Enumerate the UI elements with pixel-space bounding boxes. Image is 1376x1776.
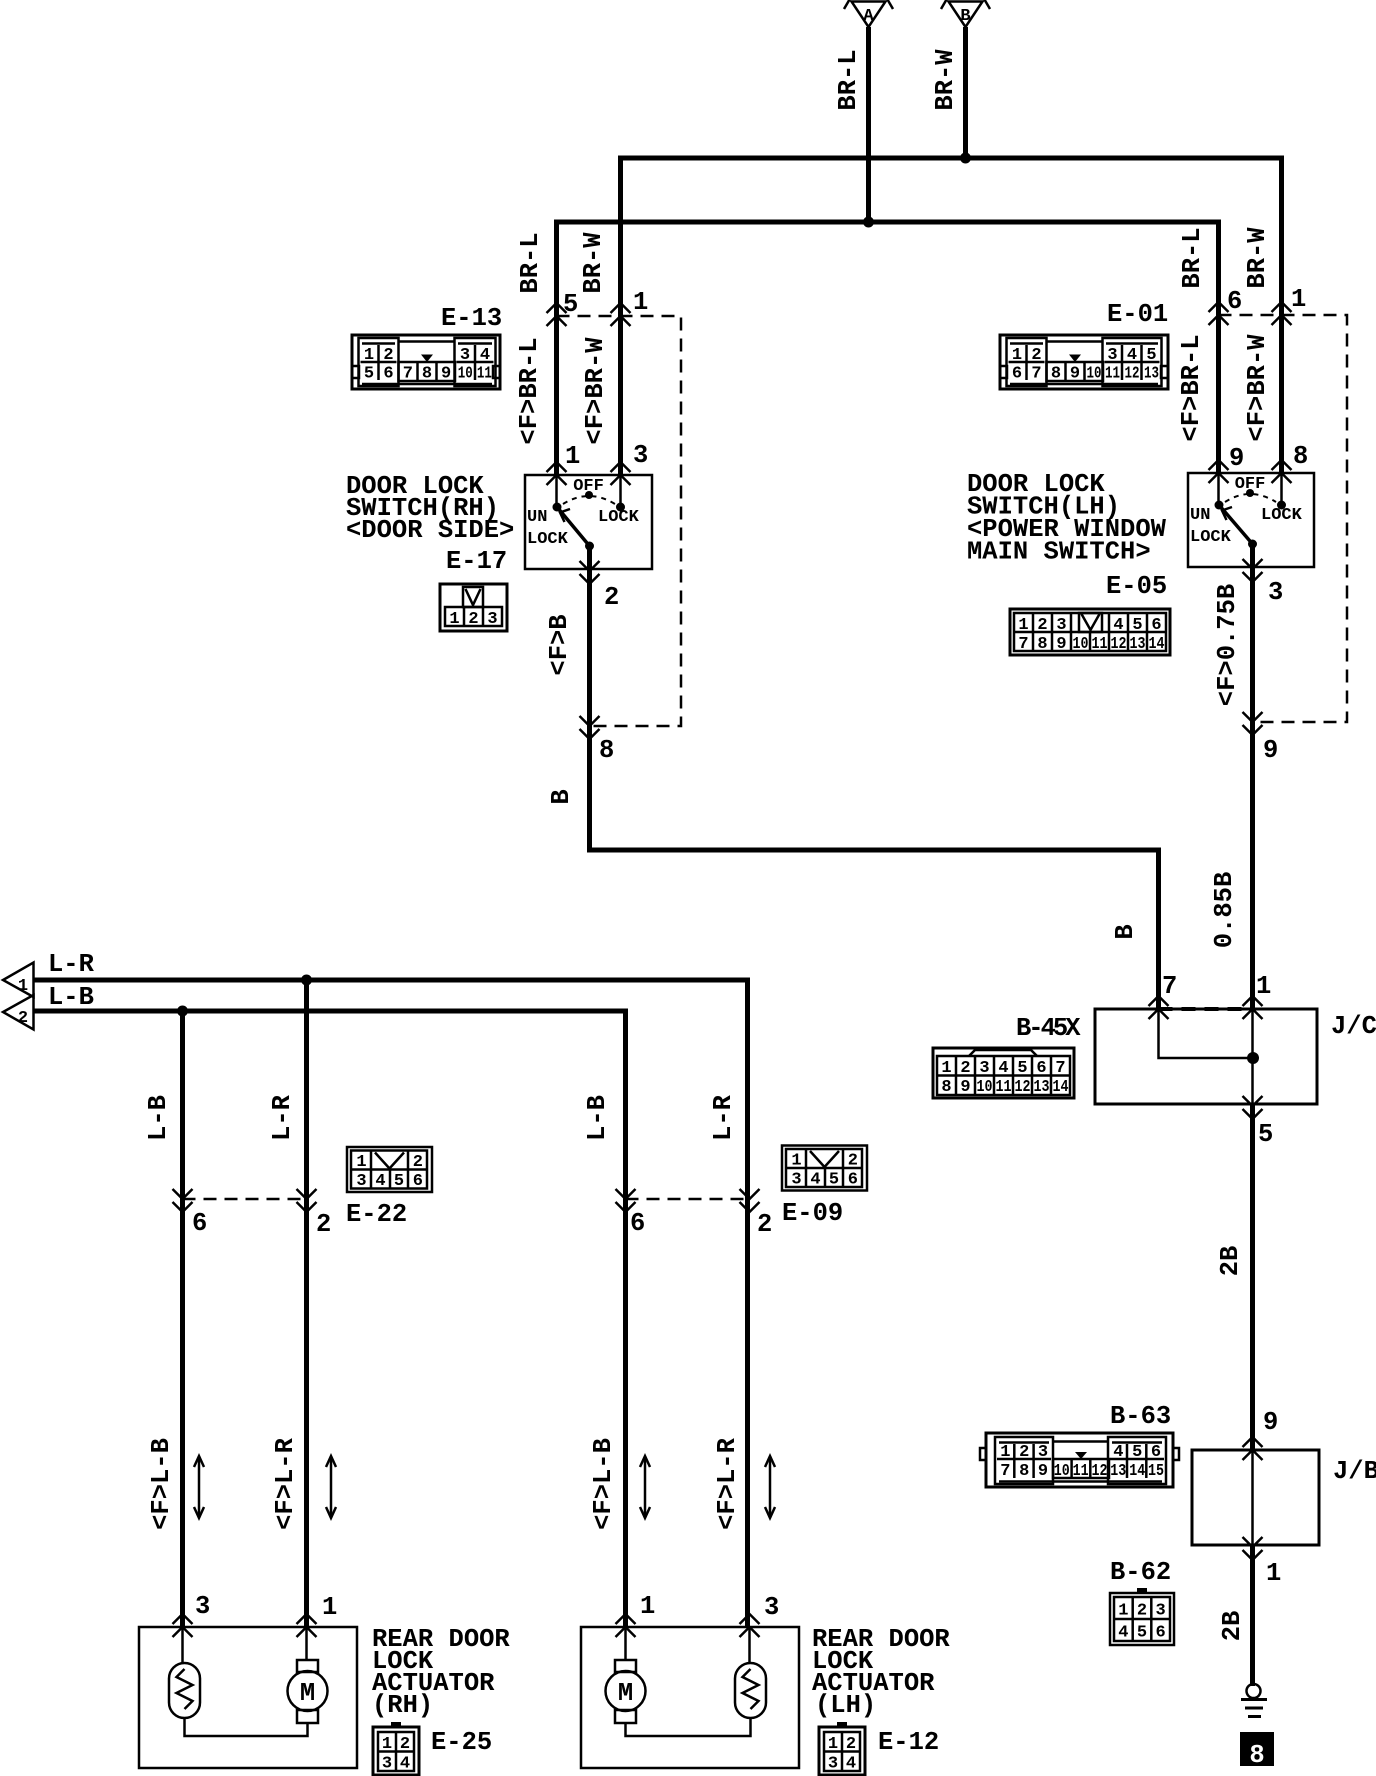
svg-text:BR-W: BR-W xyxy=(579,232,608,294)
svg-text:2: 2 xyxy=(468,610,478,629)
svg-text:1: 1 xyxy=(322,1593,337,1622)
wire J/B to ground xyxy=(1250,1545,1255,1686)
J/C junction dot xyxy=(1247,1052,1259,1064)
arrows into J/C, pins 7 and 1 xyxy=(1149,996,1169,1019)
svg-text:3: 3 xyxy=(356,1172,366,1191)
svg-text:1: 1 xyxy=(1000,1443,1010,1462)
svg-text:4: 4 xyxy=(375,1172,385,1191)
svg-text:B: B xyxy=(960,7,970,26)
svg-text:7: 7 xyxy=(1162,972,1177,1001)
svg-text:M: M xyxy=(618,1679,633,1708)
svg-text:2: 2 xyxy=(316,1210,331,1239)
svg-text:UN: UN xyxy=(527,508,547,527)
J/B exit arrow pin 1 xyxy=(1243,1537,1263,1560)
svg-text:7: 7 xyxy=(1031,365,1041,384)
svg-text:<F>L-B: <F>L-B xyxy=(147,1438,176,1530)
svg-text:8: 8 xyxy=(422,365,432,384)
svg-text:2B: 2B xyxy=(1216,1246,1245,1277)
svg-text:8: 8 xyxy=(1051,365,1061,384)
svg-text:E-09: E-09 xyxy=(782,1199,843,1228)
wire L-B branch xyxy=(180,1011,185,1627)
svg-text:<F>L-R: <F>L-R xyxy=(713,1437,742,1530)
svg-text:9: 9 xyxy=(1263,736,1278,765)
svg-text:9: 9 xyxy=(441,365,451,384)
svg-text:B: B xyxy=(547,789,576,804)
svg-text:1: 1 xyxy=(1266,1559,1281,1588)
svg-text:REAR DOORLOCKACTUATOR(LH): REAR DOORLOCKACTUATOR(LH) xyxy=(812,1625,950,1720)
svg-text:10: 10 xyxy=(458,365,473,384)
svg-text:9: 9 xyxy=(1070,365,1080,384)
svg-text:9: 9 xyxy=(1056,635,1066,654)
J/C exit arrow pin 5 xyxy=(1243,1096,1263,1119)
svg-text:L-R: L-R xyxy=(48,950,95,979)
svg-text:2: 2 xyxy=(1031,346,1041,365)
svg-text:15: 15 xyxy=(1148,1462,1164,1481)
junction dot B/BR-W bus xyxy=(960,153,971,164)
wire L-R bus xyxy=(34,980,748,1627)
door lock switch (RH) box xyxy=(525,475,652,569)
svg-text:4: 4 xyxy=(1113,616,1123,635)
svg-text:<F>0.75B: <F>0.75B xyxy=(1213,584,1242,706)
svg-text:2: 2 xyxy=(18,1009,28,1028)
connector E-13 crossing arrows, pins 5 and 1 xyxy=(547,303,567,326)
svg-text:1: 1 xyxy=(1256,972,1271,1001)
wire BR-W from arrow B down xyxy=(963,27,968,158)
svg-text:13: 13 xyxy=(1110,1462,1126,1481)
svg-text:L-R: L-R xyxy=(709,1094,738,1141)
J/B entry arrow pin 9 xyxy=(1243,1437,1263,1460)
svg-text:13: 13 xyxy=(1034,1078,1050,1097)
svg-text:1: 1 xyxy=(1012,346,1022,365)
svg-text:8: 8 xyxy=(941,1078,951,1097)
svg-text:4: 4 xyxy=(998,1059,1008,1078)
svg-text:2: 2 xyxy=(413,1153,423,1172)
svg-text:<F>B: <F>B xyxy=(545,614,574,675)
svg-text:2: 2 xyxy=(757,1210,772,1239)
junction dot L-R xyxy=(301,975,312,986)
connector E-05 pin 9 arrow xyxy=(1243,712,1263,735)
svg-text:5: 5 xyxy=(563,290,578,319)
svg-text:DOOR LOCKSWITCH(LH)<POWER WIND: DOOR LOCKSWITCH(LH)<POWER WINDOWMAIN SWI… xyxy=(967,470,1167,567)
svg-text:12: 12 xyxy=(1125,365,1140,384)
connector E-05 (14 pin) xyxy=(1010,609,1170,655)
svg-text:LOCK: LOCK xyxy=(1261,506,1303,525)
svg-text:J/C: J/C xyxy=(1331,1012,1376,1041)
wire BR-L bus: horizontal then down both sides xyxy=(557,222,1219,475)
arrows into door lock switch LH xyxy=(1209,460,1229,483)
svg-text:LOCK: LOCK xyxy=(527,530,569,549)
svg-text:2: 2 xyxy=(1137,1602,1147,1621)
svg-text:11: 11 xyxy=(1073,1462,1089,1481)
svg-text:3: 3 xyxy=(1107,346,1117,365)
connector E-22 (6 pin) xyxy=(347,1147,432,1192)
svg-text:3: 3 xyxy=(1268,578,1283,607)
switch LH output wire pin 3 xyxy=(1250,544,1255,1009)
svg-text:14: 14 xyxy=(1053,1078,1069,1097)
svg-text:2: 2 xyxy=(383,346,393,365)
svg-text:4: 4 xyxy=(1113,1443,1123,1462)
svg-text:BR-L: BR-L xyxy=(516,232,545,293)
connector E-09 crossing arrows, pins 6 and 2 xyxy=(616,1189,636,1212)
svg-text:3: 3 xyxy=(633,441,648,470)
junction dot L-B xyxy=(177,1006,188,1017)
svg-text:LOCK: LOCK xyxy=(598,508,640,527)
wire L-B bus xyxy=(34,1011,626,1627)
svg-text:<F>BR-W: <F>BR-W xyxy=(1243,334,1272,442)
svg-text:11: 11 xyxy=(477,365,492,384)
svg-text:5: 5 xyxy=(394,1172,404,1191)
svg-text:3: 3 xyxy=(487,610,497,629)
wire J/C to J/B xyxy=(1250,1104,1255,1450)
connector E-22 crossing arrows, pins 6 and 2 xyxy=(173,1189,193,1212)
J/C junction block xyxy=(1095,1009,1317,1104)
switch RH output wire pin 2 xyxy=(590,546,1159,1009)
wire BR-W bus: horizontal then down both sides xyxy=(621,158,1282,475)
svg-text:8: 8 xyxy=(1019,1462,1029,1481)
svg-text:BR-W: BR-W xyxy=(1243,227,1272,289)
dashed connector E-09 boundary xyxy=(626,1198,750,1201)
svg-text:E-17: E-17 xyxy=(446,547,507,576)
svg-text:LOCK: LOCK xyxy=(1190,528,1232,547)
svg-text:1: 1 xyxy=(1018,616,1028,635)
svg-text:OFF: OFF xyxy=(573,477,604,496)
svg-text:10: 10 xyxy=(1054,1462,1070,1481)
J/C top connector B-45X dashed overlay xyxy=(1159,1007,1253,1011)
svg-text:REAR DOORLOCKACTUATOR(RH): REAR DOORLOCKACTUATOR(RH) xyxy=(372,1625,510,1720)
rear door lock actuator (LH) box xyxy=(581,1627,799,1768)
svg-text:3: 3 xyxy=(460,346,470,365)
svg-text:12: 12 xyxy=(1015,1078,1031,1097)
svg-text:3: 3 xyxy=(382,1755,392,1774)
svg-text:2: 2 xyxy=(1019,1443,1029,1462)
svg-text:<F>BR-L: <F>BR-L xyxy=(515,337,544,444)
svg-text:E-01: E-01 xyxy=(1107,300,1168,329)
svg-text:E-12: E-12 xyxy=(878,1728,939,1757)
svg-text:2B: 2B xyxy=(1218,1611,1247,1642)
rear door lock actuator (RH) box xyxy=(139,1627,357,1768)
svg-text:BR-L: BR-L xyxy=(834,49,863,110)
connector arrow B (to other page) xyxy=(941,0,990,27)
svg-text:13: 13 xyxy=(1144,365,1159,384)
connector E-09 (6 pin) xyxy=(782,1146,867,1191)
connector E-13 pin 8 arrow xyxy=(580,716,600,739)
svg-text:BR-W: BR-W xyxy=(931,49,960,111)
dashed connector E-13 boundary xyxy=(557,316,682,726)
svg-text:3: 3 xyxy=(195,1592,210,1621)
svg-text:11: 11 xyxy=(996,1078,1012,1097)
svg-text:0.85B: 0.85B xyxy=(1210,872,1239,949)
dashed connector E-01 boundary xyxy=(1219,315,1348,722)
svg-text:1: 1 xyxy=(633,288,648,317)
svg-text:<F>L-R: <F>L-R xyxy=(271,1437,300,1530)
svg-text:5: 5 xyxy=(1258,1120,1273,1149)
svg-text:1: 1 xyxy=(565,442,580,471)
connector B-63 (15 pin) xyxy=(980,1433,1179,1487)
connector arrow A (to other page) xyxy=(844,0,893,27)
svg-text:L-B: L-B xyxy=(48,983,94,1012)
svg-text:4: 4 xyxy=(1127,346,1137,365)
J/C internal wiring xyxy=(1159,1009,1254,1058)
svg-text:6: 6 xyxy=(1036,1059,1046,1078)
svg-text:5: 5 xyxy=(364,365,374,384)
switch LH internals xyxy=(1190,473,1303,549)
svg-text:12: 12 xyxy=(1111,635,1127,654)
svg-text:7: 7 xyxy=(1055,1059,1065,1078)
svg-text:2: 2 xyxy=(960,1059,970,1078)
svg-text:6: 6 xyxy=(1155,1624,1165,1643)
svg-text:6: 6 xyxy=(383,365,393,384)
svg-text:6: 6 xyxy=(1227,287,1242,316)
actuator LH internals: solenoid coil xyxy=(735,1627,766,1718)
svg-text:B: B xyxy=(1111,924,1140,939)
svg-text:3: 3 xyxy=(979,1059,989,1078)
svg-text:E-25: E-25 xyxy=(431,1728,492,1757)
svg-text:10: 10 xyxy=(1073,635,1089,654)
J/B internal wire xyxy=(1251,1450,1254,1545)
svg-text:5: 5 xyxy=(1137,1624,1147,1643)
svg-text:5: 5 xyxy=(1017,1059,1027,1078)
actuator RH internal bottom wire xyxy=(185,1718,308,1736)
svg-text:1: 1 xyxy=(364,346,374,365)
svg-text:3: 3 xyxy=(1155,1602,1165,1621)
svg-text:M: M xyxy=(300,1679,315,1708)
svg-text:E-05: E-05 xyxy=(1106,572,1167,601)
door lock switch (LH) box xyxy=(1188,473,1314,567)
svg-text:10: 10 xyxy=(1087,365,1102,384)
svg-text:OFF: OFF xyxy=(1235,475,1266,494)
svg-text:4: 4 xyxy=(400,1755,410,1774)
svg-text:L-B: L-B xyxy=(583,1095,612,1141)
svg-text:B-45X: B-45X xyxy=(1016,1014,1081,1043)
svg-text:3: 3 xyxy=(1038,1443,1048,1462)
svg-text:1: 1 xyxy=(941,1059,951,1078)
svg-text:9: 9 xyxy=(1038,1462,1048,1481)
connector E-12 (4 pin) xyxy=(819,1722,865,1775)
connector B-62 (6 pin) xyxy=(1110,1588,1174,1645)
ground symbol xyxy=(1241,1684,1267,1717)
svg-text:DOOR LOCKSWITCH(RH)<DOOR SIDE>: DOOR LOCKSWITCH(RH)<DOOR SIDE> xyxy=(346,472,514,545)
svg-text:7: 7 xyxy=(1018,635,1028,654)
wire BR-L from arrow A down xyxy=(866,27,871,222)
svg-text:6: 6 xyxy=(630,1209,645,1238)
svg-text:12: 12 xyxy=(1092,1462,1108,1481)
svg-text:<F>L-B: <F>L-B xyxy=(589,1438,618,1530)
svg-text:8: 8 xyxy=(1037,635,1047,654)
svg-text:6: 6 xyxy=(192,1209,207,1238)
wire L-R branch xyxy=(304,980,309,1627)
svg-text:5: 5 xyxy=(1132,1443,1142,1462)
ground reference numeral 8 xyxy=(1240,1732,1274,1770)
arrows into actuator LH xyxy=(616,1614,636,1637)
svg-text:1: 1 xyxy=(356,1153,366,1172)
svg-text:9: 9 xyxy=(1229,444,1244,473)
svg-text:2: 2 xyxy=(400,1735,410,1754)
svg-text:2: 2 xyxy=(604,583,619,612)
svg-text:14: 14 xyxy=(1149,635,1165,654)
svg-text:<F>BR-L: <F>BR-L xyxy=(1177,334,1206,441)
svg-text:1: 1 xyxy=(1118,1602,1128,1621)
svg-text:3: 3 xyxy=(764,1593,779,1622)
connector E-25 (4 pin) xyxy=(373,1722,419,1775)
svg-text:10: 10 xyxy=(977,1078,993,1097)
arrows into actuator RH xyxy=(173,1614,193,1637)
svg-text:1: 1 xyxy=(18,977,28,996)
svg-text:2: 2 xyxy=(1037,616,1047,635)
connector arrow 2 (to other page) xyxy=(3,995,34,1030)
connector E-17 (3 pin) xyxy=(440,584,507,631)
connector B-45X (14 pin) xyxy=(933,1048,1074,1098)
svg-text:A: A xyxy=(863,7,874,26)
svg-text:E-13: E-13 xyxy=(441,304,502,333)
connector E-13 (11 pin) xyxy=(352,335,500,389)
svg-text:9: 9 xyxy=(1263,1408,1278,1437)
svg-text:1: 1 xyxy=(449,610,459,629)
connector E-01 (13 pin) xyxy=(1000,335,1168,389)
J/B junction block xyxy=(1192,1450,1319,1545)
svg-text:L-B: L-B xyxy=(144,1095,173,1141)
svg-text:1: 1 xyxy=(382,1735,392,1754)
svg-text:<F>BR-W: <F>BR-W xyxy=(581,337,610,445)
svg-text:4: 4 xyxy=(1118,1624,1128,1643)
svg-text:8: 8 xyxy=(1293,442,1308,471)
svg-text:8: 8 xyxy=(1249,1741,1264,1770)
svg-text:B-62: B-62 xyxy=(1110,1558,1171,1587)
svg-text:B-63: B-63 xyxy=(1110,1402,1171,1431)
svg-text:8: 8 xyxy=(599,736,614,765)
svg-text:6: 6 xyxy=(413,1172,423,1191)
svg-text:6: 6 xyxy=(1151,1443,1161,1462)
svg-text:14: 14 xyxy=(1129,1462,1145,1481)
svg-text:BR-L: BR-L xyxy=(1178,227,1207,288)
actuator RH internals: solenoid coil xyxy=(169,1627,200,1718)
svg-text:1: 1 xyxy=(640,1592,655,1621)
svg-text:UN: UN xyxy=(1190,506,1210,525)
connector arrow 1 (to other page) xyxy=(3,963,34,998)
arrows into door lock switch RH xyxy=(547,462,567,485)
svg-text:5: 5 xyxy=(1132,616,1142,635)
svg-text:11: 11 xyxy=(1105,365,1120,384)
svg-text:J/B: J/B xyxy=(1333,1457,1376,1486)
switch RH internals xyxy=(527,475,640,551)
junction dot A/BR-L bus xyxy=(863,217,874,228)
dashed connector E-22 boundary xyxy=(183,1198,307,1201)
svg-text:5: 5 xyxy=(1146,346,1156,365)
svg-text:E-22: E-22 xyxy=(346,1200,407,1229)
svg-text:L-R: L-R xyxy=(268,1094,297,1141)
svg-text:6: 6 xyxy=(1151,616,1161,635)
svg-text:6: 6 xyxy=(1012,365,1022,384)
actuator LH internal bottom wire xyxy=(626,1718,751,1736)
actuator RH internals: motor M xyxy=(288,1627,328,1723)
svg-text:7: 7 xyxy=(403,365,413,384)
svg-text:3: 3 xyxy=(1056,616,1066,635)
svg-text:13: 13 xyxy=(1130,635,1146,654)
svg-text:4: 4 xyxy=(480,346,490,365)
svg-text:11: 11 xyxy=(1092,635,1108,654)
svg-text:7: 7 xyxy=(1000,1462,1010,1481)
actuator LH internals: motor M xyxy=(606,1627,646,1723)
svg-text:1: 1 xyxy=(1291,285,1306,314)
svg-text:9: 9 xyxy=(960,1078,970,1097)
connector E-01 crossing arrows, pins 6 and 1 xyxy=(1209,302,1229,325)
